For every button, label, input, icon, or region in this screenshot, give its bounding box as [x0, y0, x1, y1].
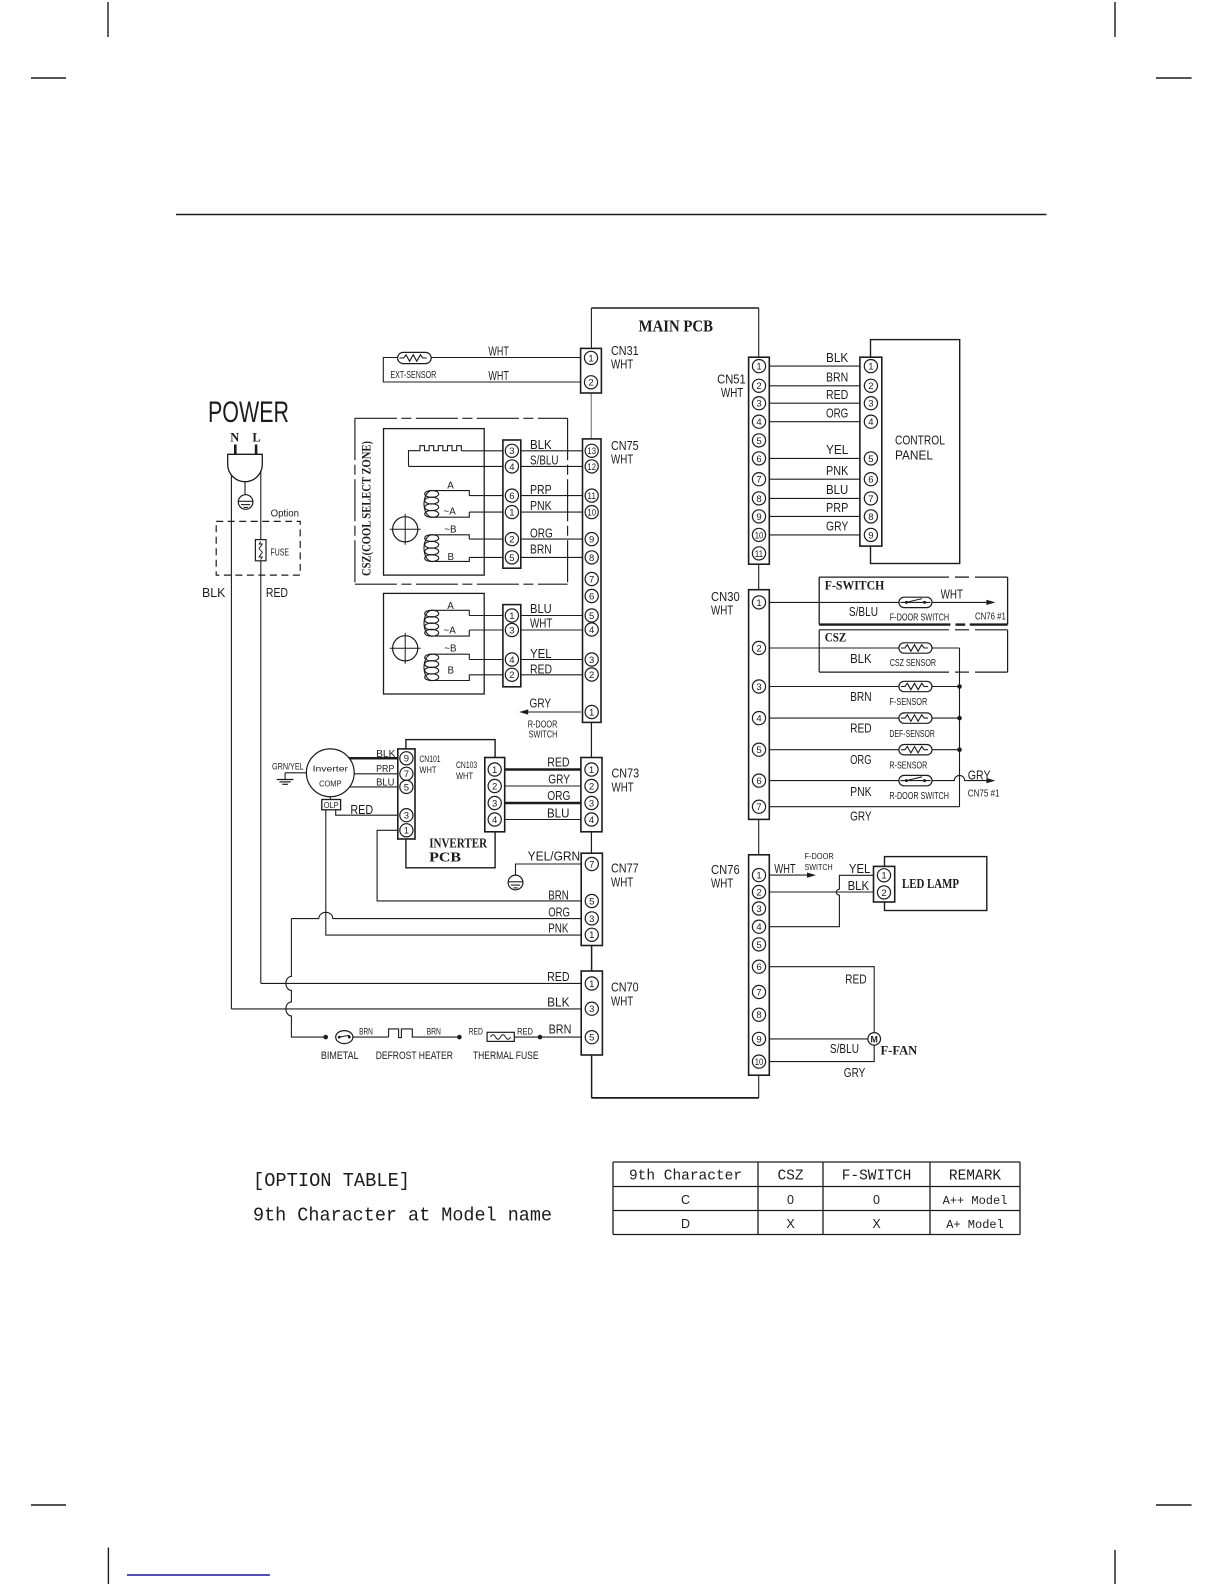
svg-text:RED: RED	[530, 661, 552, 676]
svg-text:0: 0	[873, 1193, 880, 1207]
svg-text:CONTROL: CONTROL	[895, 433, 945, 448]
svg-text:WHT: WHT	[774, 861, 796, 876]
svg-text:2: 2	[589, 781, 594, 792]
svg-text:CN73: CN73	[612, 766, 640, 781]
svg-text:RED: RED	[826, 387, 848, 402]
svg-text:9: 9	[756, 1034, 761, 1045]
svg-text:F-SWITCH: F-SWITCH	[825, 578, 885, 592]
svg-text:7: 7	[756, 475, 761, 486]
svg-text:BIMETAL: BIMETAL	[321, 1050, 359, 1062]
svg-text:3: 3	[756, 904, 761, 915]
svg-text:BLK: BLK	[848, 878, 870, 893]
svg-text:DEFROST HEATER: DEFROST HEATER	[376, 1050, 453, 1062]
svg-text:WHT: WHT	[941, 586, 963, 601]
svg-text:10: 10	[587, 508, 596, 519]
svg-text:2: 2	[492, 781, 497, 792]
svg-text:CN77: CN77	[611, 861, 639, 876]
svg-text:REMARK: REMARK	[949, 1169, 1002, 1185]
svg-text:MAIN PCB: MAIN PCB	[639, 317, 713, 336]
svg-text:WHT: WHT	[488, 368, 508, 383]
svg-text:GRY: GRY	[530, 696, 552, 711]
svg-text:4: 4	[509, 655, 514, 666]
svg-text:10: 10	[755, 1057, 764, 1068]
svg-text:PNK: PNK	[850, 784, 872, 799]
svg-text:[OPTION TABLE]: [OPTION TABLE]	[253, 1170, 410, 1192]
svg-text:1: 1	[589, 765, 594, 776]
svg-text:1: 1	[492, 765, 497, 776]
svg-text:N: N	[230, 431, 239, 445]
svg-text:BLK: BLK	[547, 995, 570, 1010]
svg-text:RED: RED	[850, 721, 872, 736]
svg-text:POWER: POWER	[208, 396, 289, 429]
svg-text:1: 1	[589, 979, 594, 990]
svg-text:5: 5	[589, 896, 594, 907]
svg-text:A+ Model: A+ Model	[946, 1218, 1004, 1232]
svg-text:3: 3	[589, 1004, 594, 1015]
svg-text:Inverter: Inverter	[313, 765, 349, 774]
svg-text:5: 5	[404, 782, 409, 793]
svg-text:8: 8	[756, 494, 761, 505]
svg-text:COMP: COMP	[319, 780, 341, 789]
svg-text:BRN: BRN	[549, 1021, 572, 1036]
svg-text:5: 5	[509, 553, 514, 564]
svg-text:WHT: WHT	[711, 876, 733, 891]
svg-text:R-SENSOR: R-SENSOR	[889, 760, 927, 771]
svg-text:~A: ~A	[444, 507, 457, 518]
svg-text:10: 10	[755, 530, 764, 541]
svg-text:WHT: WHT	[612, 779, 634, 794]
svg-text:3: 3	[509, 625, 514, 636]
svg-text:GRN/YEL: GRN/YEL	[272, 761, 304, 771]
svg-text:PRP: PRP	[826, 500, 848, 515]
svg-text:LED LAMP: LED LAMP	[902, 876, 959, 891]
svg-text:4: 4	[589, 815, 594, 826]
svg-text:CN75 #1: CN75 #1	[968, 788, 1000, 799]
svg-text:1: 1	[509, 508, 514, 519]
svg-text:8: 8	[589, 553, 594, 564]
svg-text:F-FAN: F-FAN	[881, 1043, 918, 1057]
svg-text:4: 4	[589, 625, 594, 636]
svg-text:6: 6	[868, 475, 873, 486]
svg-text:7: 7	[589, 574, 594, 585]
svg-text:R-DOOR SWITCH: R-DOOR SWITCH	[889, 791, 949, 802]
svg-text:9: 9	[756, 512, 761, 523]
svg-text:6: 6	[509, 491, 514, 502]
svg-text:11: 11	[755, 549, 764, 560]
svg-text:1: 1	[881, 871, 886, 882]
svg-text:EXT-SENSOR: EXT-SENSOR	[390, 370, 436, 381]
svg-text:BRN: BRN	[548, 887, 569, 902]
svg-text:5: 5	[589, 1033, 594, 1044]
svg-text:BLK: BLK	[376, 749, 396, 760]
svg-text:2: 2	[509, 535, 514, 546]
svg-text:PNK: PNK	[530, 498, 552, 513]
svg-text:GRY: GRY	[968, 768, 991, 783]
svg-text:4: 4	[756, 417, 761, 428]
svg-text:ORG: ORG	[826, 405, 848, 420]
svg-text:RED: RED	[547, 754, 569, 769]
svg-text:9th Character: 9th Character	[629, 1169, 742, 1185]
svg-text:2: 2	[589, 670, 594, 681]
svg-text:F-DOOR: F-DOOR	[805, 852, 834, 861]
svg-text:WHT: WHT	[611, 357, 633, 372]
svg-text:BLK: BLK	[850, 651, 872, 666]
svg-text:5: 5	[756, 745, 761, 756]
svg-text:9th Character at Model name: 9th Character at Model name	[253, 1205, 552, 1227]
svg-text:7: 7	[756, 802, 761, 813]
svg-text:13: 13	[587, 446, 596, 457]
svg-text:DEF-SENSOR: DEF-SENSOR	[889, 729, 935, 740]
svg-text:S/BLU: S/BLU	[530, 453, 559, 468]
svg-text:2: 2	[756, 887, 761, 898]
svg-text:4: 4	[756, 922, 761, 933]
svg-text:ORG: ORG	[850, 752, 872, 767]
svg-text:GRY: GRY	[548, 772, 570, 787]
svg-text:7: 7	[589, 859, 594, 870]
svg-text:L: L	[252, 431, 260, 445]
svg-text:1: 1	[509, 611, 514, 622]
svg-text:YEL: YEL	[530, 646, 552, 661]
svg-text:3: 3	[509, 446, 514, 457]
svg-text:CN75: CN75	[611, 438, 639, 453]
svg-text:WHT: WHT	[611, 993, 633, 1008]
svg-text:BRN: BRN	[826, 370, 848, 385]
svg-text:CSZ(COOL SELECT ZONE): CSZ(COOL SELECT ZONE)	[358, 441, 373, 576]
svg-text:4: 4	[509, 462, 514, 473]
svg-text:4: 4	[492, 815, 497, 826]
svg-text:S/BLU: S/BLU	[849, 604, 878, 619]
svg-text:2: 2	[588, 378, 593, 389]
svg-text:RED: RED	[350, 803, 373, 817]
svg-text:5: 5	[756, 940, 761, 951]
svg-text:ORG: ORG	[547, 788, 570, 803]
svg-text:1: 1	[589, 930, 594, 941]
svg-text:WHT: WHT	[488, 344, 508, 359]
svg-text:D: D	[681, 1217, 690, 1231]
svg-text:A: A	[447, 481, 454, 492]
svg-text:CSZ: CSZ	[825, 631, 847, 645]
svg-text:2: 2	[881, 888, 886, 899]
svg-text:CN70: CN70	[611, 980, 639, 995]
svg-text:WHT: WHT	[711, 603, 733, 618]
svg-text:WHT: WHT	[419, 765, 437, 775]
svg-text:PNK: PNK	[548, 920, 569, 935]
svg-text:A++ Model: A++ Model	[943, 1194, 1008, 1208]
svg-text:6: 6	[756, 962, 761, 973]
svg-text:1: 1	[756, 871, 761, 882]
svg-text:YEL: YEL	[826, 442, 848, 457]
svg-text:YEL: YEL	[849, 861, 871, 876]
svg-text:SWITCH: SWITCH	[805, 863, 833, 872]
svg-text:4: 4	[868, 417, 873, 428]
svg-text:X: X	[786, 1217, 795, 1231]
svg-text:F-DOOR SWITCH: F-DOOR SWITCH	[890, 613, 950, 624]
svg-text:3: 3	[756, 682, 761, 693]
svg-text:BLK: BLK	[202, 585, 226, 600]
svg-text:1: 1	[756, 362, 761, 373]
svg-text:F-SENSOR: F-SENSOR	[889, 697, 927, 708]
svg-text:BLU: BLU	[376, 777, 394, 788]
svg-text:3: 3	[756, 399, 761, 410]
svg-text:12: 12	[587, 462, 596, 473]
svg-text:Option: Option	[271, 508, 300, 520]
svg-text:PRP: PRP	[530, 482, 552, 497]
svg-text:BLK: BLK	[530, 437, 552, 452]
svg-text:2: 2	[756, 643, 761, 654]
svg-text:1: 1	[588, 353, 593, 364]
svg-text:6: 6	[756, 776, 761, 787]
svg-text:~B: ~B	[444, 644, 457, 655]
svg-text:RED: RED	[266, 585, 288, 600]
svg-text:6: 6	[756, 454, 761, 465]
svg-text:THERMAL FUSE: THERMAL FUSE	[473, 1050, 539, 1062]
svg-text:RED: RED	[469, 1026, 483, 1036]
svg-text:9: 9	[589, 535, 594, 546]
svg-text:YEL/GRN: YEL/GRN	[528, 848, 581, 863]
svg-text:SWITCH: SWITCH	[529, 730, 558, 741]
svg-text:~B: ~B	[444, 525, 457, 536]
svg-text:5: 5	[589, 611, 594, 622]
svg-text:WHT: WHT	[530, 616, 552, 631]
svg-text:BLU: BLU	[530, 601, 552, 616]
svg-text:CSZ: CSZ	[777, 1169, 803, 1185]
svg-text:OLP: OLP	[324, 801, 339, 810]
svg-text:F-SWITCH: F-SWITCH	[842, 1169, 912, 1185]
svg-text:WHT: WHT	[721, 385, 743, 400]
svg-text:CSZ SENSOR: CSZ SENSOR	[890, 658, 936, 669]
svg-text:CN31: CN31	[611, 343, 639, 358]
svg-text:8: 8	[756, 1010, 761, 1021]
svg-text:CN76 #1: CN76 #1	[975, 612, 1006, 623]
svg-text:1: 1	[868, 362, 873, 373]
svg-text:6: 6	[589, 591, 594, 602]
svg-text:PNK: PNK	[826, 463, 849, 478]
svg-text:7: 7	[756, 987, 761, 998]
svg-text:3: 3	[589, 798, 594, 809]
svg-text:3: 3	[589, 914, 594, 925]
svg-text:9: 9	[868, 530, 873, 541]
svg-text:4: 4	[756, 714, 761, 725]
svg-text:RED: RED	[517, 1026, 533, 1036]
svg-text:7: 7	[868, 494, 873, 505]
svg-text:0: 0	[787, 1193, 794, 1207]
svg-text:GRY: GRY	[826, 519, 849, 534]
svg-text:BRN: BRN	[427, 1026, 441, 1036]
svg-text:M: M	[871, 1034, 878, 1044]
svg-text:3: 3	[404, 811, 409, 822]
svg-text:2: 2	[756, 381, 761, 392]
svg-text:~A: ~A	[444, 625, 457, 636]
svg-text:PRP: PRP	[376, 764, 395, 775]
svg-text:3: 3	[492, 798, 497, 809]
svg-text:X: X	[872, 1217, 881, 1231]
svg-text:BRN: BRN	[850, 689, 872, 704]
svg-text:B: B	[448, 552, 455, 563]
svg-text:RED: RED	[547, 969, 569, 984]
svg-text:BLK: BLK	[826, 350, 849, 365]
svg-text:CN103: CN103	[456, 760, 477, 770]
svg-text:11: 11	[587, 491, 596, 502]
svg-text:1: 1	[404, 826, 409, 837]
svg-text:WHT: WHT	[611, 874, 633, 889]
svg-text:GRY: GRY	[844, 1065, 866, 1080]
svg-text:BRN: BRN	[530, 541, 552, 556]
svg-text:3: 3	[589, 655, 594, 666]
svg-text:1: 1	[589, 707, 594, 718]
svg-text:2: 2	[509, 670, 514, 681]
svg-text:INVERTER: INVERTER	[429, 836, 488, 851]
svg-text:ORG: ORG	[548, 904, 570, 919]
svg-text:FUSE: FUSE	[271, 546, 290, 558]
svg-text:BLU: BLU	[826, 482, 848, 497]
svg-text:7: 7	[404, 769, 409, 780]
svg-text:B: B	[448, 665, 455, 676]
svg-text:8: 8	[868, 512, 873, 523]
svg-text:PANEL: PANEL	[895, 448, 933, 463]
svg-text:1: 1	[756, 598, 761, 609]
svg-text:5: 5	[756, 436, 761, 447]
svg-text:PCB: PCB	[429, 850, 461, 865]
svg-text:A: A	[447, 601, 454, 612]
svg-text:9: 9	[404, 754, 409, 765]
svg-text:2: 2	[868, 381, 873, 392]
svg-text:ORG: ORG	[530, 525, 553, 540]
svg-text:CN101: CN101	[419, 754, 440, 764]
svg-text:GRY: GRY	[850, 808, 872, 823]
svg-text:5: 5	[868, 454, 873, 465]
svg-text:WHT: WHT	[611, 452, 633, 467]
svg-text:BRN: BRN	[359, 1026, 373, 1036]
svg-text:3: 3	[868, 399, 873, 410]
svg-text:S/BLU: S/BLU	[830, 1041, 859, 1056]
svg-text:C: C	[681, 1193, 690, 1207]
svg-text:RED: RED	[845, 971, 867, 986]
svg-text:BLU: BLU	[547, 805, 569, 820]
svg-text:WHT: WHT	[456, 771, 474, 781]
